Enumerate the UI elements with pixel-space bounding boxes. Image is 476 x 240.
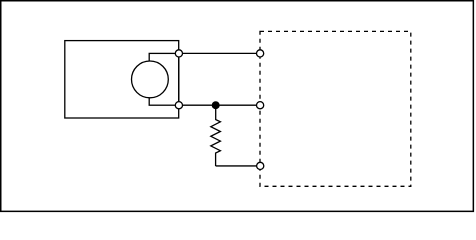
junction (solder dot)	[212, 101, 220, 109]
terminal bottom-left (open circle)	[175, 102, 182, 109]
wire bottom (resistor to external circuit)	[216, 165, 261, 167]
dashed box (external circuit)	[260, 31, 411, 186]
resistor R1	[211, 105, 221, 166]
wire top (left box to external circuit)	[179, 52, 260, 54]
terminal top-left (open circle)	[175, 50, 182, 57]
terminal top-right (open circle)	[257, 50, 264, 57]
transducer circle element	[132, 61, 169, 98]
terminal bottom-right (open circle)	[257, 162, 264, 169]
terminal middle-right (open circle)	[257, 102, 264, 109]
transducer outer box	[65, 41, 179, 118]
wire middle (left box to external circuit)	[179, 104, 260, 106]
transducer inner bracket	[149, 53, 179, 105]
